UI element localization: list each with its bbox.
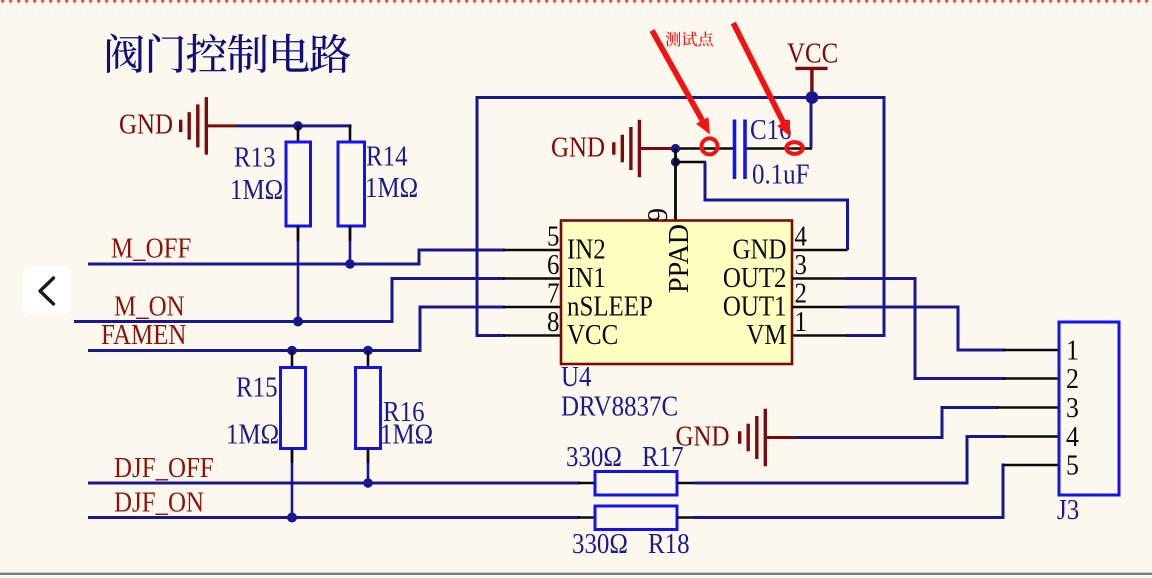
wire R16 top pin xyxy=(367,351,370,368)
ground GND middle xyxy=(551,120,671,178)
title 阀门控制电路 xyxy=(107,34,350,73)
back chevron button xyxy=(23,266,71,314)
svg-text:1: 1 xyxy=(795,306,807,338)
wire DJF_OFF to R17 xyxy=(88,482,596,485)
svg-text:9: 9 xyxy=(643,208,674,222)
svg-text:5: 5 xyxy=(547,220,559,252)
wire R14 bottom to M_OFF xyxy=(349,226,352,264)
capacitor C16 xyxy=(735,120,746,180)
svg-text:OUT1: OUT1 xyxy=(723,290,787,322)
svg-text:VCC: VCC xyxy=(787,37,838,69)
pin 5 stub xyxy=(503,249,561,252)
op-amp U4 DRV8837C body xyxy=(561,221,792,365)
svg-text:VCC: VCC xyxy=(567,319,618,351)
resistor R18 xyxy=(595,506,677,530)
test point circle 1 xyxy=(702,138,718,154)
ground GND top-left xyxy=(119,97,236,154)
wire R13 bottom to M_ON xyxy=(297,226,300,322)
svg-text:1MΩ: 1MΩ xyxy=(230,174,283,206)
svg-text:IN1: IN1 xyxy=(567,262,606,294)
node VCC junction xyxy=(806,91,819,104)
resistor R17 xyxy=(595,472,677,496)
svg-text:2: 2 xyxy=(795,277,807,309)
svg-text:R15: R15 xyxy=(236,371,278,403)
svg-text:FAMEN: FAMEN xyxy=(101,319,186,351)
svg-text:330Ω: 330Ω xyxy=(572,528,628,560)
svg-text:1MΩ: 1MΩ xyxy=(365,172,418,204)
wire VCC to C16 right plate xyxy=(747,98,813,149)
wire M_ON to pin 6 xyxy=(74,279,505,322)
svg-text:5: 5 xyxy=(1066,449,1079,481)
svg-text:GND: GND xyxy=(733,233,787,265)
pin 3 OUT2 stub xyxy=(792,277,847,280)
node M_OFF R14 junction xyxy=(345,259,355,269)
node GND C16 junction xyxy=(671,144,680,153)
svg-text:R13: R13 xyxy=(234,141,276,173)
node FAMEN R15 junction xyxy=(287,346,297,356)
ground GND bottom xyxy=(676,409,797,467)
wire FAMEN to pin 7 xyxy=(88,307,505,351)
svg-text:8: 8 xyxy=(547,306,559,338)
resistor R14 xyxy=(338,142,365,226)
svg-text:R14: R14 xyxy=(366,140,408,172)
power VCC symbol xyxy=(787,37,838,97)
node DJF_ON R15 junction xyxy=(287,513,297,523)
svg-text:1: 1 xyxy=(1066,334,1079,366)
node M_ON R13 junction xyxy=(293,317,303,327)
pin 7 stub xyxy=(503,306,561,309)
svg-text:OUT2: OUT2 xyxy=(723,262,787,294)
svg-text:4: 4 xyxy=(1066,421,1079,453)
wire R15 bottom to DJF_ON xyxy=(291,449,294,518)
svg-text:3: 3 xyxy=(1066,392,1079,424)
svg-text:DJF_ON: DJF_ON xyxy=(114,486,204,518)
svg-text:GND: GND xyxy=(551,131,605,163)
wire R15 top pin xyxy=(291,351,294,368)
test point label 测试点 xyxy=(666,31,713,46)
J3 pin 2 stub xyxy=(1003,377,1059,380)
resistor R13 xyxy=(286,142,311,226)
J3 pin 5 stub xyxy=(1003,464,1059,467)
resistor R16 xyxy=(356,368,381,449)
svg-text:R18: R18 xyxy=(648,528,690,560)
pin 2 OUT1 stub xyxy=(792,306,847,309)
node GND PPAD junction xyxy=(671,157,680,166)
pin 4 stub xyxy=(792,249,848,252)
svg-text:6: 6 xyxy=(547,249,559,281)
svg-text:2: 2 xyxy=(1066,363,1079,395)
wire PPAD pin 9 xyxy=(674,149,677,221)
svg-text:330Ω: 330Ω xyxy=(566,441,622,473)
wire M_OFF to pin 5 xyxy=(88,250,505,264)
svg-text:DRV8837C: DRV8837C xyxy=(561,390,678,422)
wire R18 to J3 pin 5 xyxy=(677,465,1005,518)
svg-text:GND: GND xyxy=(119,108,173,140)
wire OUT1 to J3 pin 1 xyxy=(846,307,1005,350)
svg-text:U4: U4 xyxy=(561,361,591,393)
svg-text:DJF_OFF: DJF_OFF xyxy=(114,452,214,484)
pin 1 VM stub xyxy=(792,334,847,337)
pin 8 stub xyxy=(503,334,561,337)
node DJF_OFF R16 junction xyxy=(363,478,373,488)
J3 pin 3 stub xyxy=(997,406,1059,409)
svg-text:IN2: IN2 xyxy=(567,233,606,265)
svg-text:M_ON: M_ON xyxy=(114,290,185,322)
svg-text:M_OFF: M_OFF xyxy=(111,232,191,264)
test point circle 2 xyxy=(786,142,802,154)
wire GND to J3 pin 3 xyxy=(795,408,998,438)
wire GND to pin 4 xyxy=(676,162,848,250)
svg-text:4: 4 xyxy=(795,220,807,252)
J3 pin 4 stub xyxy=(1003,435,1059,438)
wire OUT2 to J3 pin 2 xyxy=(846,279,1005,379)
node R13 top junction xyxy=(293,121,303,131)
wire R17 to J3 pin 4 xyxy=(677,437,1005,484)
wire R14 top pin xyxy=(349,125,352,143)
svg-text:3: 3 xyxy=(795,249,807,281)
wire R16 bottom to DJF_OFF xyxy=(367,449,370,484)
svg-text:VM: VM xyxy=(746,319,786,351)
wire GND1 to R13/R14 tops xyxy=(236,124,352,127)
wire DJF_ON to R18 xyxy=(88,516,596,519)
wire VCC rail to pin 8 (left branch) xyxy=(477,98,884,336)
J3 pin 1 stub xyxy=(1003,349,1059,352)
test point arrow 1 xyxy=(652,31,710,135)
svg-text:1MΩ: 1MΩ xyxy=(226,418,279,450)
test point arrow 2 xyxy=(733,23,790,137)
resistor R15 xyxy=(281,368,306,449)
svg-text:J3: J3 xyxy=(1057,494,1079,526)
wire VCC rail to pin 1 VM (right branch) xyxy=(846,96,884,336)
wire R13 top pin xyxy=(297,125,300,143)
node FAMEN R16 junction xyxy=(363,346,373,356)
svg-text:PPAD: PPAD xyxy=(664,224,695,293)
svg-text:1MΩ: 1MΩ xyxy=(380,418,433,450)
wire GND to C16 left plate xyxy=(671,147,736,150)
svg-text:GND: GND xyxy=(676,420,730,452)
connector J3 body xyxy=(1059,322,1119,495)
svg-text:0.1uF: 0.1uF xyxy=(752,158,809,190)
pin 6 stub xyxy=(503,277,561,280)
svg-text:7: 7 xyxy=(547,277,559,309)
svg-text:nSLEEP: nSLEEP xyxy=(567,290,653,322)
